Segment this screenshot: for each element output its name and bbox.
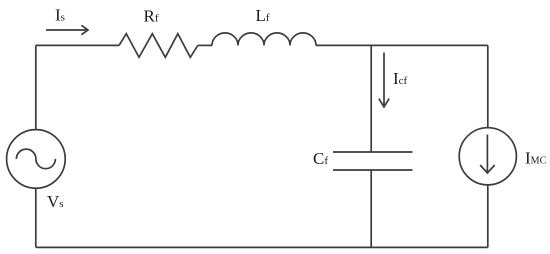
svg-text:Icf: Icf <box>393 69 408 88</box>
wire right vertical top <box>487 45 489 128</box>
wire bottom horizontal <box>36 246 488 248</box>
wire middle branch vertical <box>370 45 372 152</box>
current source U-IMC circle <box>459 128 516 185</box>
wire resistor-to-inductor <box>198 44 212 46</box>
svg-text:IMC: IMC <box>525 149 547 168</box>
wire capacitor to bottom <box>370 170 372 247</box>
sine symbol inside Vs <box>16 149 55 169</box>
wire top-left horizontal <box>36 44 119 46</box>
svg-text:Vs: Vs <box>47 192 64 211</box>
arrow inside IMC source <box>486 135 488 172</box>
capacitor Cf top plate <box>333 151 413 153</box>
wire inductor-to-right-corner <box>316 44 488 46</box>
svg-text:Lf: Lf <box>256 6 270 25</box>
svg-text:Cf: Cf <box>313 149 328 168</box>
wire left vertical bottom <box>35 188 37 247</box>
resistor Rf <box>119 34 198 58</box>
inductor Lf <box>212 33 316 46</box>
voltage source Vs circle <box>7 130 66 189</box>
wire right vertical bottom <box>487 185 489 248</box>
current arrow Icf <box>383 53 385 106</box>
current arrow Is <box>46 29 87 31</box>
wire left vertical top <box>35 45 37 130</box>
svg-text:Is: Is <box>55 6 65 25</box>
capacitor Cf bottom plate <box>333 169 413 171</box>
svg-text:Rf: Rf <box>144 7 159 26</box>
